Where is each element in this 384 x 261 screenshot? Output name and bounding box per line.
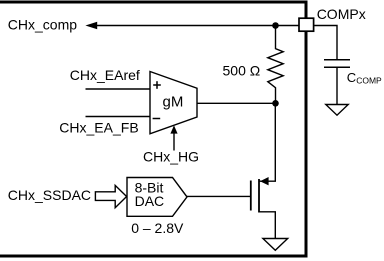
wire: gM output to node [197, 102, 273, 104]
svg-text:500 Ω: 500 Ω [223, 63, 261, 79]
svg-text:CHx_HG: CHx_HG [143, 149, 199, 165]
bus arrow: SSDAC into DAC [95, 185, 126, 207]
op-amp U1 gM transconductance amp [150, 72, 197, 134]
svg-text:CHx_SSDAC: CHx_SSDAC [8, 187, 91, 203]
wire: EA_FB to - input [86, 116, 151, 118]
svg-text:CHx_EA_FB: CHx_EA_FB [59, 119, 138, 135]
wire: pin to capacitor [314, 26, 337, 60]
DAC block (8-Bit DAC) [127, 178, 187, 217]
svg-text:CHx_comp: CHx_comp [8, 17, 77, 33]
transistor Q1 (NMOS) [251, 106, 275, 239]
svg-text:0 – 2.8V: 0 – 2.8V [131, 220, 184, 236]
svg-text:gM: gM [163, 93, 184, 110]
svg-text:DAC: DAC [135, 193, 165, 209]
svg-text:COMPx: COMPx [317, 6, 366, 22]
minus sign (inverting input) [153, 118, 161, 120]
ground (capacitor) [326, 105, 348, 116]
wire: comp output to pin COMPx (with left arrowhead) [85, 22, 298, 29]
chip boundary [0, 2, 306, 256]
junction: resistor top node [272, 22, 279, 29]
pin COMPx (package pin square) [299, 18, 314, 31]
resistor 500 Ω [268, 26, 283, 104]
plus sign (non-inverting input) [153, 81, 161, 89]
capacitor C_COMP [324, 60, 350, 105]
svg-text:CHx_EAref: CHx_EAref [70, 67, 140, 83]
ground (transistor source) [263, 239, 288, 251]
junction: gM output node [272, 100, 279, 107]
wire: DAC output to transistor gate [187, 195, 250, 197]
svg-text:CCOMP: CCOMP [347, 70, 382, 86]
wire: HG into gM bottom (up arrowhead) [170, 125, 177, 150]
wire: EAref to + input [86, 88, 151, 90]
